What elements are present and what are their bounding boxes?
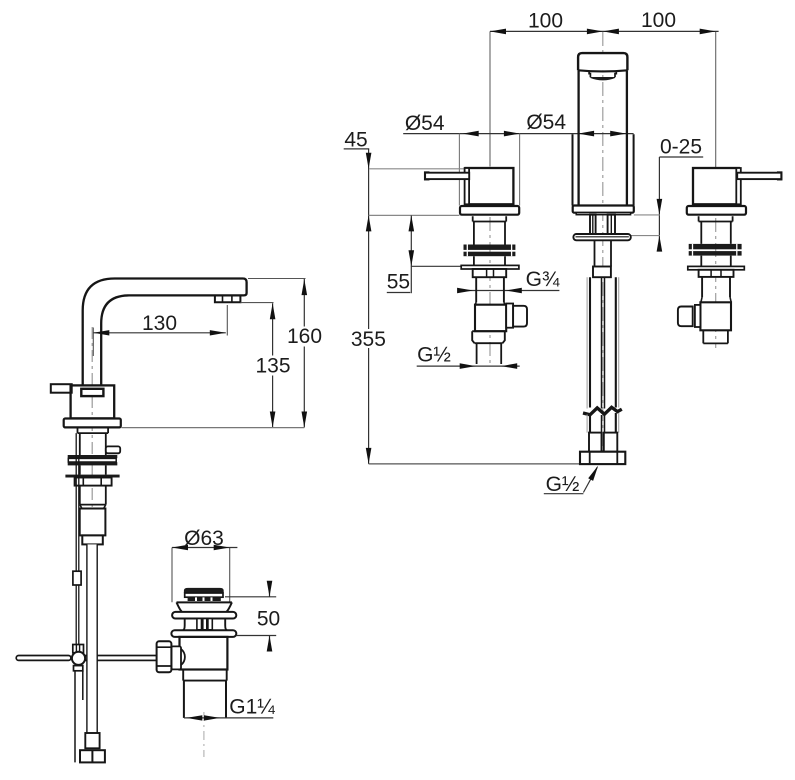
valve body [466, 168, 514, 204]
mounting hex nut [75, 478, 112, 486]
valve lock nut black band right [689, 244, 742, 249]
valve handle stem right [736, 168, 741, 204]
dimension G3/4 [457, 268, 560, 293]
spout flange [573, 206, 634, 213]
rod clamp nut [73, 645, 84, 653]
drain body [180, 637, 228, 670]
dimension D63 [172, 527, 237, 602]
aerator level reference line [241, 302, 274, 304]
collar flare right [701, 297, 731, 302]
valve hex nut [473, 269, 507, 277]
ball bulge [181, 649, 185, 665]
centerline faucet axis [91, 327, 93, 546]
dimension 135 [255, 303, 290, 427]
mounting studs [590, 215, 596, 234]
svg-text:G1¼: G1¼ [229, 696, 275, 719]
valve elbow body right [700, 302, 731, 330]
shank side tab [106, 446, 120, 453]
connector lower block [82, 535, 103, 544]
spout body outline [83, 279, 247, 386]
elbow bottom nut [472, 331, 505, 343]
dimension G1 1/4 [184, 696, 275, 721]
cartridge cap [81, 389, 103, 396]
dimension D54 D54 line [403, 111, 633, 206]
svg-text:45: 45 [344, 129, 367, 152]
valve shank step [473, 216, 507, 221]
pop-up rod upper [76, 433, 79, 644]
big washer [65, 475, 119, 478]
handle body block [71, 385, 115, 418]
svg-text:100: 100 [641, 9, 676, 32]
horizontal pop-up lever rod left segment [16, 656, 71, 661]
valve lock nut black band [464, 245, 516, 250]
supply tube [87, 544, 97, 733]
valve handle lever [425, 172, 429, 179]
valve shank tube [474, 222, 505, 245]
lower shank tube [80, 486, 106, 505]
svg-text:G½: G½ [546, 473, 580, 496]
svg-text:G¾: G¾ [526, 268, 560, 291]
rod collar [73, 571, 81, 585]
spout cap [578, 53, 627, 70]
svg-text:135: 135 [255, 355, 290, 378]
break symbol [583, 407, 622, 415]
escutcheon base [64, 419, 121, 428]
dimension 55 [387, 215, 461, 293]
tube below nut [474, 256, 505, 265]
deck reference line left figure [122, 427, 305, 429]
elbow outlet block right [678, 307, 693, 327]
ball lower collar [74, 666, 83, 671]
elbow outlet block [513, 306, 527, 327]
handle lever [51, 384, 72, 393]
svg-text:50: 50 [257, 608, 280, 631]
centerline spout axis [602, 32, 604, 464]
shank upper step [78, 427, 109, 433]
deck reference line right figure [369, 214, 460, 216]
spout top reference line [248, 278, 306, 280]
centerline right valve axis [715, 31, 717, 168]
clevis plate [171, 646, 181, 669]
shank tube [80, 433, 106, 455]
dimension G1/2 left valve [417, 344, 520, 369]
label G1/2 bottom center [544, 466, 598, 497]
taper joint [80, 505, 106, 509]
centerline left valve axis [489, 31, 491, 166]
connector block [80, 509, 106, 536]
svg-text:0-25: 0-25 [660, 135, 702, 158]
rod lower [75, 671, 83, 763]
bottom hex fitting [580, 452, 625, 464]
spout washer plate [573, 234, 630, 240]
pop-up cap [184, 588, 224, 593]
elbow outlet plate right [695, 305, 701, 327]
valve bottom tube [477, 343, 502, 364]
svg-text:355: 355 [351, 328, 386, 351]
supply tube end hex [80, 750, 105, 762]
svg-text:130: 130 [142, 312, 177, 335]
spout aerator [215, 296, 241, 302]
dimension 0-25 [631, 135, 703, 251]
dimension 130 [93, 305, 227, 356]
slotted neck [183, 619, 228, 631]
svg-text:160: 160 [287, 325, 322, 348]
trumpet flange [177, 602, 232, 611]
dimension 100 100 [490, 9, 719, 34]
valve elbow body [475, 305, 506, 332]
shank nut [593, 267, 611, 278]
dimension 45 [344, 129, 466, 464]
valve shank step right [699, 216, 733, 221]
elbow outlet plate [506, 304, 513, 328]
valve washer right [688, 266, 745, 269]
valve escutcheon [460, 206, 519, 215]
lower washer [171, 630, 236, 637]
svg-text:100: 100 [528, 10, 563, 33]
valve handle stem [465, 168, 470, 204]
valve lower tube [476, 277, 504, 302]
supply shank long tube upper [587, 277, 619, 408]
dimension 50 [225, 581, 280, 652]
drain body lower section [183, 670, 227, 681]
ball joint [72, 652, 85, 665]
svg-text:G½: G½ [417, 344, 451, 367]
supply shank long tube lower [587, 413, 619, 433]
lever pivot block [157, 641, 172, 672]
spout plinth sides [573, 134, 634, 205]
supply tube coupler [85, 733, 99, 748]
valve escutcheon right [687, 206, 746, 215]
svg-text:55: 55 [387, 271, 410, 294]
upper washer [172, 612, 236, 619]
valve hex nut right [699, 270, 734, 277]
horizontal pop-up lever rod right segment [85, 656, 156, 661]
svg-text:Ø63: Ø63 [184, 527, 224, 550]
dimension 160 [287, 279, 322, 428]
valve bottom tube right [703, 330, 728, 343]
spout aerator front [589, 72, 616, 77]
hose coupling [589, 433, 602, 452]
spout body sides [579, 70, 627, 205]
spout shank tube [595, 240, 612, 266]
tube between washers [80, 465, 106, 474]
dimension 355 [351, 328, 580, 464]
neck slots [197, 619, 202, 630]
valve lower tube right [702, 277, 730, 297]
tailpiece [184, 681, 226, 718]
valve body right [693, 168, 739, 204]
valve handle lever right [778, 172, 782, 179]
svg-text:Ø54: Ø54 [526, 111, 566, 134]
tube below nut right [701, 256, 731, 267]
collar flare [475, 302, 505, 304]
svg-text:Ø54: Ø54 [405, 112, 445, 135]
cap stem thread band [188, 597, 221, 601]
valve shank tube right [701, 222, 731, 244]
washer stack [68, 455, 118, 458]
drain centerline [203, 712, 205, 757]
valve washer [461, 265, 519, 269]
